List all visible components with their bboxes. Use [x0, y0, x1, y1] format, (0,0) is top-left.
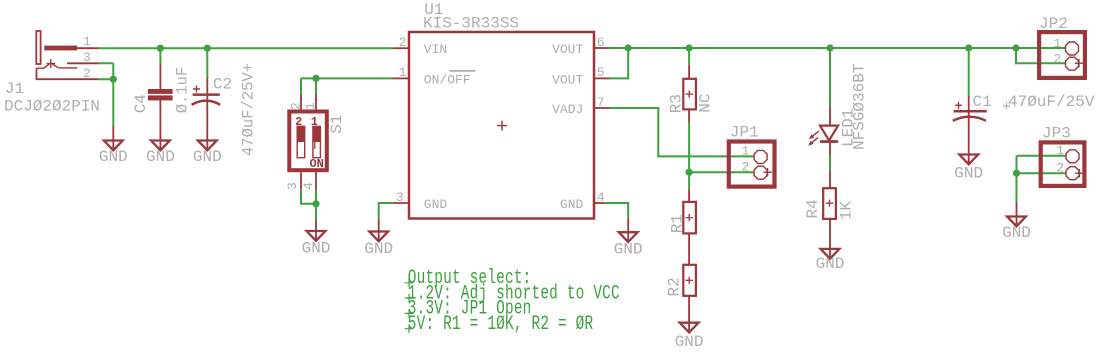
svg-text:3: 3	[396, 190, 404, 205]
svg-text:ON/OFF: ON/OFF	[424, 72, 471, 87]
wire VOUT main	[610, 47, 1067, 49]
switch S1 slider 2	[297, 126, 305, 157]
svg-text:6: 6	[597, 35, 605, 50]
wire U1 pin4 gnd	[604, 203, 628, 218]
resistor R4 body	[823, 188, 836, 219]
junction JP1 pin2 node	[686, 169, 693, 176]
connector JP2 pin1 pad	[1066, 42, 1079, 55]
svg-text:1: 1	[311, 115, 318, 129]
capacitor C2 top plate	[193, 93, 220, 96]
svg-text:DCJØ2Ø2PIN: DCJØ2Ø2PIN	[4, 97, 100, 115]
connector J1 body	[36, 31, 40, 64]
svg-text:2: 2	[741, 160, 749, 175]
svg-text:NFSGØ36BT: NFSGØ36BT	[851, 64, 869, 150]
capacitor C1 pin top	[968, 96, 970, 110]
ic U1 pin 3 stub	[393, 202, 409, 204]
connector JP2 pin2 cross	[1075, 59, 1083, 67]
wire ON/OFF net	[301, 78, 393, 94]
junction C1	[965, 44, 972, 51]
connector J1 pin3 lead	[67, 62, 99, 64]
wire JP3 pin2 and gnd	[1017, 156, 1066, 203]
svg-text:C2: C2	[213, 76, 232, 94]
junction R3	[686, 44, 693, 51]
wire LED to R4	[829, 155, 831, 171]
svg-text:1: 1	[399, 65, 407, 80]
svg-text:2: 2	[399, 35, 407, 50]
capacitor C1 top plate	[954, 110, 987, 113]
svg-text:2: 2	[295, 115, 302, 129]
connector JP2 box	[1039, 32, 1085, 78]
wire jack pins 2-3 to GND	[99, 63, 114, 126]
wire C1 tap	[968, 48, 970, 96]
svg-text:R1: R1	[669, 214, 687, 233]
svg-text:KIS-3R33SS: KIS-3R33SS	[423, 14, 519, 32]
switch S1 box	[289, 112, 327, 171]
wire JP2 pin2	[1016, 48, 1065, 63]
gnd C2	[206, 127, 208, 150]
led LED1 pin bottom	[829, 143, 831, 155]
resistor R1 pins	[688, 190, 690, 265]
ic U1 pin 4 stub	[594, 202, 604, 204]
gnd U1 pin4	[627, 218, 629, 241]
capacitor C1 curved plate	[953, 117, 986, 121]
svg-text:C1: C1	[973, 93, 992, 111]
note text line 3 origin cross	[405, 309, 414, 318]
resistor R4 origin cross	[826, 200, 833, 207]
resistor R3 body	[683, 79, 696, 110]
svg-text:S1: S1	[328, 114, 346, 133]
junction LED	[826, 44, 833, 51]
switch S1 slider 1	[313, 126, 321, 157]
svg-text:NC: NC	[696, 93, 714, 112]
wire VADJ to JP1 pin1	[610, 108, 755, 156]
resistor R3 origin cross	[686, 91, 693, 98]
svg-text:GND: GND	[146, 148, 175, 166]
svg-text:VIN: VIN	[424, 42, 447, 57]
note text line 1 origin cross	[405, 279, 414, 288]
ic U1 pin 7 stub	[594, 107, 610, 109]
capacitor C2 pin top	[206, 78, 208, 93]
svg-text:2: 2	[83, 66, 91, 81]
gnd C1	[959, 155, 978, 165]
ic U1 pin 1 stub	[393, 77, 409, 79]
gnd C4	[159, 127, 161, 150]
capacitor C4 pin bottom	[159, 100, 161, 126]
svg-text:1: 1	[303, 102, 318, 110]
gnd S1	[315, 220, 317, 241]
svg-text:GND: GND	[193, 148, 222, 166]
connector J1 pin2 lead	[37, 68, 99, 79]
ic U1 pin 5 stub	[594, 77, 610, 79]
capacitor C4 pin top	[159, 64, 161, 90]
wire S1 gnd	[301, 189, 316, 220]
connector JP1 box	[729, 142, 775, 187]
junction C2	[204, 45, 211, 52]
connector JP3 box	[1041, 142, 1085, 186]
svg-text:JP1: JP1	[730, 124, 759, 142]
svg-text:JP2: JP2	[1039, 15, 1068, 33]
svg-text:2: 2	[1056, 160, 1064, 175]
gnd R2	[688, 296, 690, 332]
note text line 4 origin cross	[405, 324, 414, 333]
wire C2 tap	[206, 48, 208, 78]
junction C4	[157, 45, 164, 52]
connector JP2 pin2 pad	[1066, 57, 1079, 70]
junction S1 top	[312, 75, 319, 82]
svg-text:4: 4	[597, 190, 605, 205]
resistor R2 origin cross	[686, 277, 693, 284]
connector JP1 pin1 pad	[754, 150, 767, 163]
connector J1 lever cross	[47, 59, 56, 68]
junction jack gnd	[110, 76, 117, 83]
svg-text:GND: GND	[560, 197, 584, 212]
svg-text:R2: R2	[666, 277, 684, 296]
svg-text:R3: R3	[668, 94, 686, 113]
ic U1 pin 2 stub	[393, 47, 409, 49]
svg-text:1: 1	[741, 144, 749, 159]
svg-text:VADJ: VADJ	[552, 102, 583, 117]
capacitor C1 pin bottom	[968, 113, 970, 165]
capacitor C4 plates	[148, 89, 173, 94]
connector J1 pin1 lead	[77, 47, 99, 49]
ic U1 pin 6 stub	[594, 47, 610, 49]
svg-text:VOUT: VOUT	[552, 42, 583, 57]
led LED1 triangle	[820, 126, 838, 141]
connector JP3 pin2 cross	[1075, 169, 1083, 177]
junction JP3 pin2 node	[1013, 170, 1020, 177]
wire R3 top tap	[688, 48, 690, 64]
svg-text:5V: R1 = 1ØK, R2 = ØR: 5V: R1 = 1ØK, R2 = ØR	[408, 313, 594, 336]
svg-text:J1: J1	[5, 80, 24, 98]
switch S1 pin stubs bottom	[301, 172, 316, 189]
svg-text:3: 3	[285, 182, 300, 190]
resistor R3 pins	[688, 64, 690, 122]
capacitor C1 plus sign	[955, 102, 962, 109]
label C1 value origin cross	[1003, 103, 1010, 110]
svg-text:ON: ON	[309, 157, 323, 171]
capacitor C2 plus sign	[193, 86, 200, 93]
resistor R1 body	[683, 202, 696, 234]
wire C4 tap	[159, 48, 161, 63]
label U1 OFF overline	[449, 70, 475, 72]
svg-text:3: 3	[83, 50, 91, 65]
svg-text:1: 1	[1056, 143, 1064, 158]
connector JP1 pin2 pad	[754, 166, 767, 179]
wire VIN main	[99, 47, 393, 49]
svg-text:1: 1	[83, 34, 91, 49]
led LED1 arrows	[812, 131, 819, 137]
svg-text:VOUT: VOUT	[552, 72, 583, 87]
svg-text:R4: R4	[804, 199, 822, 218]
svg-text:GND: GND	[675, 333, 704, 351]
connector JP1 pin2 cross	[763, 168, 771, 176]
junction S1 bottom	[312, 200, 319, 207]
note text line 2 origin cross	[405, 294, 414, 303]
capacitor C2 curved plate	[192, 101, 221, 105]
resistor R4 pins	[829, 171, 831, 258]
svg-text:1: 1	[1053, 36, 1061, 51]
wire U1 pin3 gnd	[379, 203, 393, 219]
led LED1 cathode bar	[820, 140, 838, 143]
resistor R1 origin cross	[686, 214, 693, 221]
svg-text:Ø.1uF: Ø.1uF	[174, 67, 192, 114]
svg-text:5: 5	[597, 65, 605, 80]
svg-text:47ØuF/25V: 47ØuF/25V	[1008, 93, 1095, 111]
svg-text:GND: GND	[614, 241, 643, 259]
wire JP3 pin1	[1017, 155, 1066, 157]
svg-text:4: 4	[301, 182, 316, 190]
svg-text:GND: GND	[816, 255, 845, 273]
capacitor C2 pin bottom	[206, 96, 208, 127]
svg-text:2: 2	[289, 102, 304, 110]
junction JP2	[1012, 44, 1019, 51]
connector JP3 pin2 pad	[1066, 167, 1079, 180]
svg-text:GND: GND	[302, 240, 331, 258]
gnd jack	[112, 127, 114, 150]
wire LED tap	[829, 48, 831, 106]
svg-text:7: 7	[597, 95, 605, 110]
svg-text:GND: GND	[1002, 224, 1031, 242]
svg-text:GND: GND	[954, 165, 983, 183]
connector J1 switch lever	[36, 64, 77, 68]
junction VOUT pin5	[625, 44, 632, 51]
svg-text:C4: C4	[132, 94, 150, 113]
svg-text:GND: GND	[364, 240, 393, 258]
svg-text:1K: 1K	[837, 201, 855, 221]
connector J1 pin1 contact bar	[44, 46, 77, 51]
svg-text:2: 2	[1053, 51, 1061, 66]
wire VOUT pin5 loop	[610, 48, 629, 78]
ic U1 box	[409, 32, 594, 219]
svg-text:GND: GND	[424, 197, 448, 212]
svg-text:GND: GND	[99, 148, 128, 166]
wire R3 to R1	[688, 122, 690, 190]
switch S1 pin stubs top	[301, 94, 316, 110]
connector JP3 pin1 pad	[1066, 150, 1079, 163]
led LED1 pin top	[829, 106, 831, 125]
gnd R4	[821, 249, 840, 259]
gnd JP3	[1016, 203, 1018, 226]
wire node to JP1 pin2	[689, 171, 754, 173]
svg-text:47ØuF/25V+: 47ØuF/25V+	[239, 63, 257, 156]
gnd U1 pin3	[378, 219, 380, 241]
resistor R2 body	[683, 265, 696, 296]
ic U1 origin cross	[497, 121, 507, 131]
svg-text:JP3: JP3	[1042, 125, 1071, 143]
